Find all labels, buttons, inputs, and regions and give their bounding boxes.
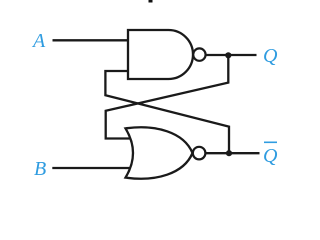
wire feedback node Qbar to NAND input	[105, 71, 229, 153]
node Qbar junction dot	[226, 150, 232, 156]
output label Qbar with overline	[263, 142, 278, 167]
svg-text:B: B	[34, 158, 46, 180]
wire NOR output to Qbar	[206, 152, 260, 154]
wire NAND output to Q	[206, 54, 257, 56]
wire B input	[52, 167, 129, 169]
svg-text:A: A	[31, 30, 46, 52]
NOR gate U2 body	[126, 127, 193, 178]
node Q junction dot	[225, 52, 231, 58]
svg-text:Q: Q	[263, 145, 278, 167]
wire feedback node Q to NOR input	[106, 55, 229, 139]
NOR bubble	[193, 147, 206, 160]
svg-text:Q: Q	[263, 45, 278, 67]
NAND bubble	[193, 48, 205, 60]
NAND gate U1 body	[128, 30, 193, 79]
stray mark top edge	[149, 0, 153, 3]
wire A input	[53, 39, 130, 41]
